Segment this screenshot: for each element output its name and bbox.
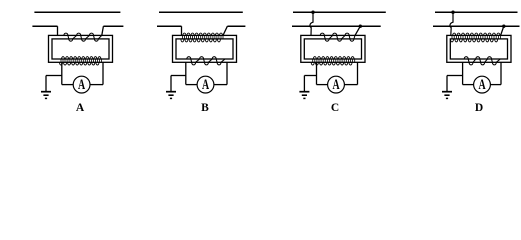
wire: ground branch B	[171, 75, 186, 77]
wire: secondary left tap A	[61, 62, 63, 84]
wire: ammeter left lead A	[62, 84, 73, 86]
bus line L2 left segment (A)	[32, 25, 57, 27]
primary winding P1 (3 turns)	[64, 33, 102, 41]
bus line L2 (D)	[433, 25, 520, 27]
junction dot on L2 (C)	[359, 25, 362, 28]
ground A	[45, 76, 47, 92]
wire: riser primary to L2 (D)	[501, 26, 504, 35]
ammeter D	[474, 76, 491, 93]
svg-text:B: B	[201, 102, 209, 114]
transformer core inner T2	[176, 39, 233, 59]
wire: secondary right tap C	[357, 62, 359, 84]
svg-text:A: A	[76, 102, 85, 114]
wire: ammeter right lead B	[214, 84, 227, 86]
bus line L1 (A)	[34, 11, 120, 13]
ammeter A	[73, 76, 90, 93]
svg-text:A: A	[202, 76, 209, 92]
transformer core inner T4	[450, 39, 507, 59]
wire: ammeter left lead D	[463, 84, 474, 86]
wire: ammeter right lead C	[344, 84, 357, 86]
wire: riser primary to L2 right (A)	[102, 26, 104, 35]
svg-text:A: A	[478, 76, 485, 92]
transformer core inner T3	[304, 39, 361, 59]
wire: ammeter left lead C	[317, 84, 328, 86]
junction dot on L1 (C)	[311, 11, 314, 14]
wire: secondary left tap B	[185, 62, 187, 84]
transformer core inner T1	[52, 39, 109, 59]
wire: secondary right tap B	[226, 62, 228, 84]
wire: ammeter right lead D	[490, 84, 501, 86]
secondary winding S2 (3 turns)	[187, 57, 225, 65]
transformer core outer T3	[301, 35, 365, 62]
ammeter C	[328, 76, 345, 93]
svg-text:D: D	[475, 102, 483, 114]
bus line L1 (C)	[293, 11, 386, 13]
transformer core outer T1	[49, 35, 113, 62]
secondary winding S3 (many turns)	[313, 57, 354, 59]
bus line L2 right segment (B)	[227, 25, 245, 27]
ammeter B	[197, 76, 214, 93]
wire: ground branch D	[447, 75, 463, 77]
bus line L1 (D)	[435, 11, 518, 13]
transformer core outer T4	[447, 35, 511, 62]
wire: secondary left tap D	[462, 62, 464, 84]
ground D	[446, 76, 448, 92]
bus line L2 (C)	[292, 25, 381, 27]
ground C	[303, 76, 305, 92]
wire: drop from L2 to primary (B)	[181, 26, 183, 35]
ground B	[170, 76, 172, 92]
wire: ground branch C	[304, 75, 316, 77]
wire: secondary right tap D	[500, 62, 502, 84]
transformer core outer T2	[173, 35, 237, 62]
bus line L2 left segment (B)	[157, 25, 182, 27]
wire: drop with hop over L2 (C)	[310, 12, 313, 35]
wire: drop with hop over L2 (D)	[450, 12, 453, 35]
junction dot on L2 (D)	[502, 25, 505, 28]
primary winding P4 (many turns)	[453, 33, 500, 35]
svg-text:C: C	[331, 102, 339, 114]
wire: ground branch A	[46, 75, 62, 77]
wire: riser primary to L2 (C)	[355, 26, 360, 35]
secondary winding S1 (many turns)	[62, 57, 101, 59]
wire: ammeter left lead B	[186, 84, 197, 86]
bus line L1 (B)	[159, 11, 243, 13]
primary winding P2 (many turns)	[183, 33, 223, 35]
bus line L2 right segment (A)	[103, 25, 123, 27]
primary winding P3 (3 turns)	[320, 33, 355, 41]
wire: drop from L2 to primary (A)	[57, 26, 59, 35]
junction dot on L1 (D)	[451, 11, 454, 14]
secondary winding S4 (3 turns)	[464, 57, 500, 65]
svg-text:A: A	[78, 76, 85, 92]
wire: ammeter right lead A	[90, 84, 103, 86]
wire: secondary right tap A	[102, 62, 104, 84]
wire: riser primary to L2 right (B)	[223, 26, 227, 35]
wire: secondary left tap C	[316, 62, 318, 84]
svg-text:A: A	[332, 76, 339, 92]
